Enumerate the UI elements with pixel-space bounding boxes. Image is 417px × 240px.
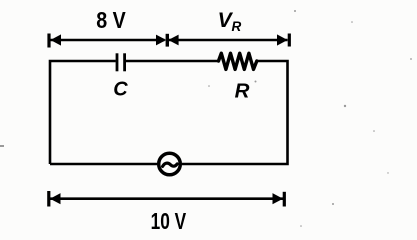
- wire: top middle segment: [126, 60, 219, 63]
- wire: top-left segment: [50, 61, 116, 164]
- dimension arrow 10V: right tick: [283, 192, 286, 207]
- AC source V1 circle: [159, 153, 181, 175]
- dimension arrow 8V: line: [50, 39, 165, 42]
- svg-text:8 V: 8 V: [96, 7, 126, 33]
- capacitor C1 plate right: [123, 53, 126, 71]
- dimension arrow 8V: right arrowhead: [156, 35, 166, 46]
- dimension arrow 10V: right arrowhead: [273, 193, 284, 204]
- svg-text:C: C: [113, 78, 128, 100]
- dimension arrow 10V: left arrowhead: [50, 193, 61, 204]
- wire: top-right + right side: [182, 61, 288, 164]
- svg-text:R: R: [232, 19, 242, 34]
- dimension arrow VR: line: [169, 39, 288, 42]
- dimension arrow VR: left arrowhead: [168, 35, 178, 46]
- AC source sine symbol: [163, 163, 178, 166]
- label V_R: [218, 9, 242, 34]
- dimension arrow VR: right tick: [288, 34, 291, 47]
- dimension arrow 8V: left arrowhead: [51, 34, 62, 45]
- dimension arrow 10V: left tick: [47, 191, 50, 207]
- dimension arrow 10V: line: [50, 197, 284, 200]
- dimension middle tick: [166, 34, 169, 47]
- svg-text:10 V: 10 V: [151, 208, 187, 234]
- dimension arrow VR: right arrowhead: [277, 34, 288, 45]
- resistor R zigzag: [219, 53, 257, 69]
- svg-text:R: R: [235, 80, 250, 103]
- capacitor C1 plate left: [116, 53, 119, 71]
- wire: bottom-left segment: [50, 163, 157, 166]
- dimension arrow 8V: left tick: [47, 34, 50, 48]
